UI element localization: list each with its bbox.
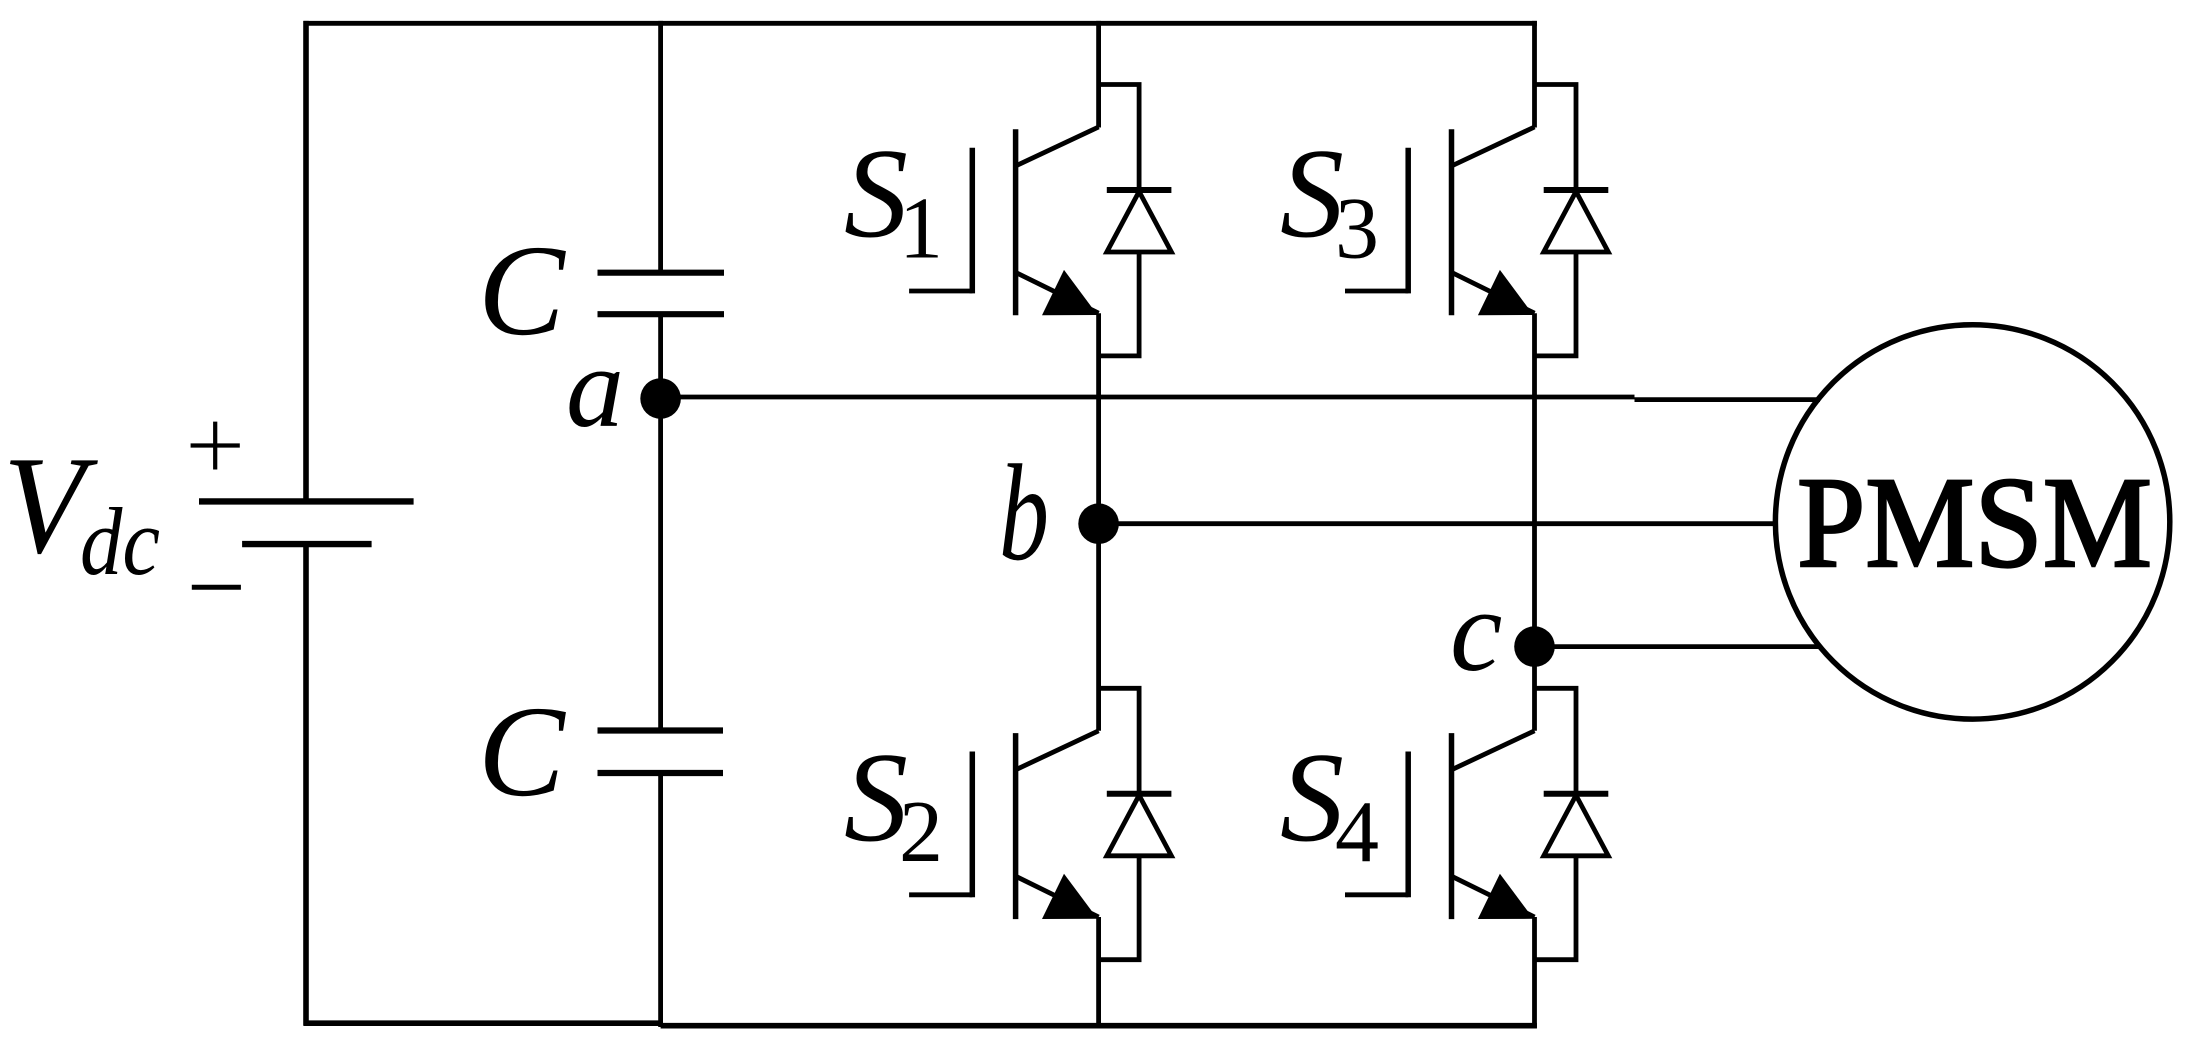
svg-text:2: 2	[899, 784, 943, 881]
diode D1	[1099, 85, 1172, 356]
wire capacitor leg lower	[658, 773, 663, 1027]
wire top bus	[304, 21, 1537, 26]
wire leg1 top	[1096, 21, 1101, 128]
svg-text:1: 1	[899, 181, 943, 278]
label b	[999, 436, 1049, 589]
node b	[1078, 503, 1119, 544]
wire phase b to PMSM	[1099, 521, 1776, 526]
label PMSM	[1797, 451, 2152, 595]
label S1	[844, 123, 943, 278]
node c	[1514, 626, 1555, 667]
label S2	[844, 726, 943, 881]
label c	[1450, 565, 1502, 696]
wire capacitor leg middle	[658, 314, 663, 730]
diode D2	[1099, 688, 1172, 959]
label a	[566, 324, 624, 452]
capacitor C lower	[598, 731, 724, 774]
node a	[640, 378, 681, 419]
label S4	[1280, 726, 1379, 881]
svg-text:C: C	[478, 219, 566, 363]
svg-text:C: C	[478, 680, 566, 824]
wire phase a to PMSM	[661, 397, 1820, 400]
transistor S1 IGBT	[909, 127, 1099, 315]
capacitor C upper	[598, 273, 725, 315]
wire leg1 middle	[1096, 313, 1101, 731]
wire leg2 top	[1532, 21, 1537, 128]
label C upper	[478, 219, 566, 363]
svg-text:PMSM: PMSM	[1797, 451, 2152, 595]
wire phase c to PMSM	[1535, 644, 1821, 649]
wire left bus lower	[303, 544, 309, 1026]
wire capacitor leg upper	[658, 21, 663, 273]
diode D4	[1535, 688, 1609, 959]
motor PMSM circle	[1775, 325, 2169, 719]
wire bottom bus	[304, 1023, 1537, 1025]
transistor S2 IGBT	[909, 731, 1099, 919]
svg-text:c: c	[1450, 565, 1502, 696]
label S3	[1280, 123, 1379, 278]
transistor S4 IGBT	[1345, 731, 1535, 919]
label C lower	[478, 680, 566, 824]
diode D3	[1535, 85, 1609, 356]
wire left bus upper	[303, 21, 309, 502]
label V_dc	[3, 428, 160, 595]
svg-text:4: 4	[1335, 784, 1379, 881]
transistor S3 IGBT	[1345, 127, 1535, 315]
svg-text:dc: dc	[80, 488, 160, 595]
wire leg2 bottom	[1532, 917, 1537, 1028]
wire leg2 middle	[1532, 313, 1537, 731]
svg-text:3: 3	[1335, 181, 1379, 278]
svg-text:b: b	[999, 436, 1049, 589]
battery plus sign	[191, 422, 240, 470]
wire leg1 bottom	[1096, 917, 1101, 1028]
battery minus sign	[192, 585, 241, 590]
battery Vdc	[199, 501, 414, 544]
svg-text:a: a	[566, 324, 624, 452]
